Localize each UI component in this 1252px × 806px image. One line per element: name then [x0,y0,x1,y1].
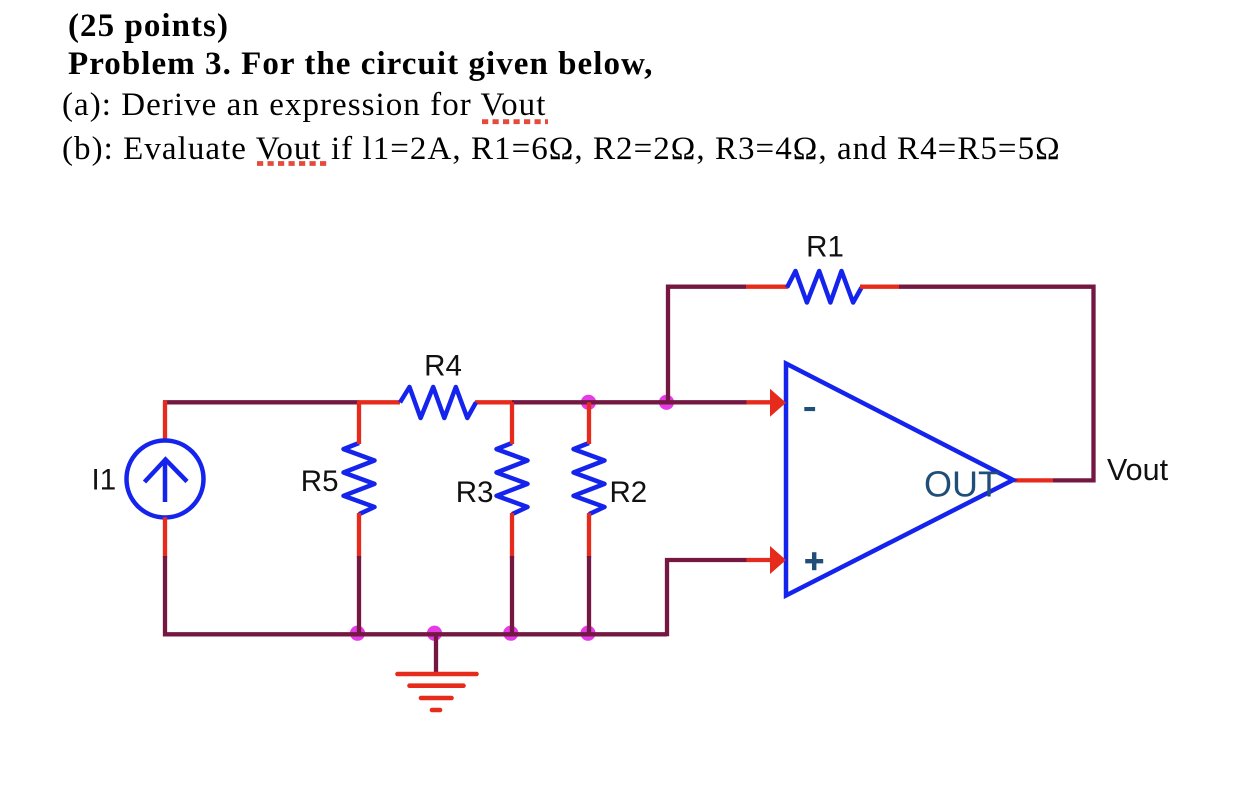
wire: top rail maroon from left corner to R5 tap [163,400,359,404]
text line 1 [68,10,229,43]
wire: red stub R3 top [510,402,514,444]
junction dot top R2 [581,395,596,410]
junction dot R3 bottom [503,626,518,641]
plus sign [805,552,823,570]
wire: red stub R2 bottom [587,513,591,558]
svg-text:R3: R3 [456,476,494,509]
wire: red stub bottom of current source [163,517,167,558]
wire: red stub into minus input [747,400,772,404]
svg-text:I1: I1 [92,464,117,497]
minus sign [804,407,815,411]
wire: maroon left rail down to bottom rail [163,556,167,636]
wire: maroon R5 to bottom rail [357,556,361,636]
svg-text:R1: R1 [806,231,844,264]
junction dot R5 bottom [350,626,365,641]
svg-text:R2: R2 [610,476,648,509]
current source I1 [127,441,204,518]
resistor R4 [400,387,476,418]
wire: maroon R2 to bottom rail [587,556,591,636]
ground [398,674,477,710]
spellcheck underline under Vout (line b) [257,161,327,166]
wire: red stub R1 left [746,285,788,289]
spellcheck underline under Vout (line a) [482,119,548,124]
wire: maroon stub to ground [434,634,438,676]
resistor R3 [497,443,528,514]
wire: red stub R2 top [587,402,591,444]
wire: red stub top of current source [163,401,167,441]
resistor R2 [574,443,605,514]
wire: red stub R5 bottom [357,513,361,558]
wire: red stub R4 right pin to R3 tap [475,400,514,404]
wire: bottom rail maroon [163,632,667,636]
wire: maroon top rail R3 tap to opamp minus red stub [512,400,747,404]
op-amp U1 [786,364,1013,596]
wire: red stub R5 tap to R4 left pin [357,400,400,404]
svg-text:OUT: OUT [924,464,1000,505]
wire: maroon R3 to bottom rail [510,556,514,636]
junction dot minus node [659,395,674,410]
opamp plus input arrow [770,546,786,574]
svg-text:R5: R5 [301,465,339,498]
junction dot ground stub [427,626,442,641]
svg-text:Vout: Vout [1107,453,1169,487]
resistor R1 [787,271,862,303]
wire: red stub into plus input [747,558,772,562]
wire: plus input path maroon [667,560,747,636]
text line 2 [68,48,653,81]
wire: feedback vertical maroon from minus node up [668,287,746,403]
wire: maroon feedback to output corner [899,287,1094,481]
junction dot R2 bottom [580,626,595,641]
wire: red stub R1 right [860,285,899,289]
opamp minus input arrow [770,389,786,417]
text line 3 [62,89,546,122]
wire: red stub R5 top [357,402,361,444]
text line 4 [62,133,1061,166]
wire: red stub opamp output [1014,478,1053,482]
resistor R5 [344,443,375,514]
wire: red stub R3 bottom [510,513,514,558]
svg-text:R4: R4 [424,350,462,383]
